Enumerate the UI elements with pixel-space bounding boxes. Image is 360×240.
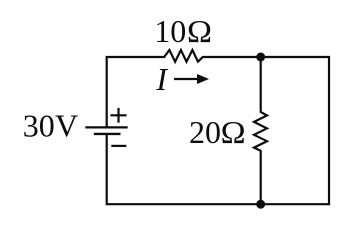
svg-text:Ω: Ω (187, 13, 212, 49)
svg-text:30: 30 (23, 107, 55, 143)
svg-text:V: V (55, 107, 78, 143)
svg-text:I: I (155, 61, 168, 97)
svg-text:Ω: Ω (221, 114, 246, 150)
svg-text:20: 20 (189, 114, 221, 150)
svg-text:10: 10 (154, 13, 186, 49)
